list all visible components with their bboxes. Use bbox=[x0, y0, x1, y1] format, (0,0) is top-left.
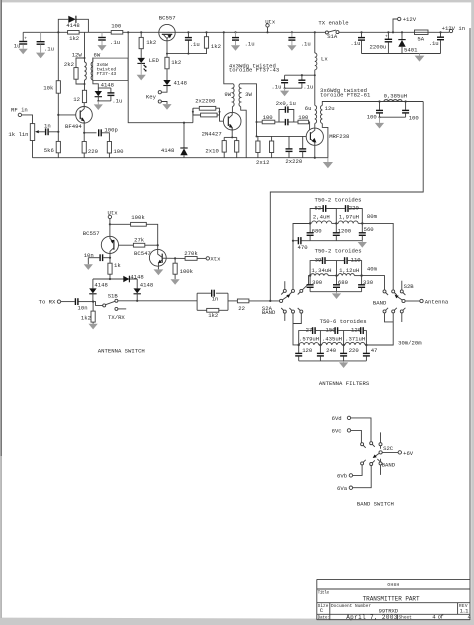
wire + terminal +6V bbox=[382, 450, 414, 457]
svg-text:TRANSMITTER PART: TRANSMITTER PART bbox=[363, 596, 420, 603]
transformer T2 primary 9W bbox=[224, 32, 234, 106]
transistor BC547 bbox=[134, 249, 166, 269]
wire: rail fuse to terminal bbox=[428, 30, 450, 33]
svg-text:2200u: 2200u bbox=[370, 44, 387, 51]
capacitor 100 (pi right) bbox=[402, 100, 419, 121]
ground (key) bbox=[162, 104, 171, 110]
bottom grey skew band bbox=[0, 618, 474, 625]
svg-text:100: 100 bbox=[298, 114, 309, 121]
capacitor 10n (RX) bbox=[75, 298, 93, 311]
wire: feedback row y=122 bbox=[257, 121, 263, 123]
svg-text:OH8H: OH8H bbox=[387, 583, 399, 588]
wire: base row y=136.4 bbox=[257, 135, 307, 137]
svg-text:ANTENNA FILTERS: ANTENNA FILTERS bbox=[319, 380, 370, 387]
svg-text:47: 47 bbox=[371, 347, 378, 354]
capacitor 2x0,1u (pair) bbox=[276, 100, 298, 125]
node bbox=[309, 274, 311, 276]
node bbox=[365, 344, 367, 346]
wire: 40m output to S2B bbox=[362, 276, 385, 290]
svg-text:100: 100 bbox=[263, 114, 274, 121]
svg-text:2x10: 2x10 bbox=[205, 148, 219, 155]
svg-text:100k: 100k bbox=[131, 214, 145, 221]
transformer T3 secondary 12u bbox=[320, 102, 423, 158]
svg-text:BC557: BC557 bbox=[83, 230, 100, 237]
note box: 3x6W twisted FT37-43 bbox=[93, 58, 128, 80]
node bbox=[342, 344, 344, 346]
capacitor 470 (matching) bbox=[292, 237, 310, 251]
svg-text:S1B: S1B bbox=[108, 292, 119, 299]
capacitor 120 (series) bbox=[344, 326, 367, 345]
svg-text:1,97uH: 1,97uH bbox=[339, 214, 359, 221]
terminal Key (pin 2) bbox=[158, 100, 161, 103]
capacitor .1u (mid a) bbox=[271, 75, 288, 90]
wire: diode to Key terminal bbox=[162, 86, 168, 93]
svg-text:.579uH: .579uH bbox=[299, 336, 319, 343]
svg-text:6W: 6W bbox=[94, 52, 101, 59]
ground (mid pair) bbox=[280, 88, 289, 96]
svg-text:Key: Key bbox=[146, 94, 157, 101]
svg-text:470: 470 bbox=[298, 244, 309, 251]
svg-text:6Vb: 6Vb bbox=[337, 473, 347, 480]
label BAND + leader bbox=[377, 459, 395, 469]
node: 27k junction bbox=[157, 244, 159, 246]
ground (100k) bbox=[171, 274, 180, 285]
svg-text:1k2: 1k2 bbox=[69, 35, 79, 42]
capacitor 1n (combo) bbox=[212, 290, 219, 303]
inductor .435uH bbox=[322, 336, 342, 345]
svg-text:1k2: 1k2 bbox=[81, 315, 91, 322]
wire: TX line to combo bbox=[118, 300, 197, 302]
node bbox=[335, 222, 337, 224]
inductor 1,12uH bbox=[338, 267, 359, 276]
wire: 100k to BC547 base column bbox=[146, 224, 157, 249]
S2B bottom contacts bbox=[383, 308, 405, 313]
diode 4148 (top left, series with rail) bbox=[66, 16, 79, 29]
ground bbox=[231, 41, 240, 51]
svg-text:5A: 5A bbox=[417, 35, 424, 42]
svg-text:S2C: S2C bbox=[383, 445, 394, 452]
resistor 12 (b) bbox=[256, 136, 274, 165]
terminal 6Va bbox=[337, 466, 371, 492]
wire: drive column x=128.2 down to driver bbox=[128, 32, 193, 122]
resistor 2200 (a) bbox=[193, 98, 220, 115]
transistor BC557 (keyer) bbox=[159, 14, 176, 40]
resistor 10k bbox=[43, 81, 60, 94]
resistor 270k bbox=[184, 250, 198, 260]
capacitor 1n (RF coupling) bbox=[44, 122, 58, 135]
svg-text:TX enable: TX enable bbox=[318, 20, 348, 27]
capacitor 82 (parallel L1) bbox=[310, 204, 336, 223]
diode 4148 (up, across emitter) bbox=[161, 147, 188, 158]
transformer T1 secondary 6W winding bbox=[91, 52, 101, 88]
wire: emitter return to 1k2 pullup bbox=[167, 48, 207, 53]
transistor BC557 (switch) bbox=[83, 230, 119, 254]
svg-text:2x2200: 2x2200 bbox=[195, 98, 216, 105]
wire: emitter split to 2x10 bbox=[231, 128, 233, 137]
svg-text:1k2: 1k2 bbox=[146, 39, 156, 46]
node: MRF emitter/rail bbox=[314, 157, 316, 159]
wire: 100 to rail bbox=[108, 153, 110, 158]
wire: pi caps bottom bus bbox=[380, 116, 406, 118]
svg-text:.435uH: .435uH bbox=[322, 336, 342, 343]
right frame line bbox=[469, 28, 471, 620]
svg-text:6Vd: 6Vd bbox=[332, 415, 342, 422]
switch S1B bbox=[93, 292, 126, 321]
resistor 100 (series in rail) bbox=[111, 23, 123, 34]
terminal RF in bbox=[11, 107, 28, 117]
wire: loop to base bbox=[220, 112, 224, 122]
node bbox=[335, 274, 337, 276]
node bbox=[166, 53, 168, 55]
node bbox=[298, 344, 300, 346]
potentiometer 1k lin bbox=[8, 124, 45, 141]
wire: .1u pair bottom bbox=[285, 87, 302, 89]
svg-text:To RX: To RX bbox=[39, 299, 56, 306]
diode 4148 (series, horizontal) bbox=[123, 274, 143, 283]
node bbox=[361, 222, 363, 224]
svg-text:T50-6 toroides: T50-6 toroides bbox=[320, 318, 367, 325]
capacitor .1u (12V in) bbox=[429, 31, 444, 53]
switch S2A common + rotor bbox=[262, 294, 290, 316]
capacitor 27 bbox=[299, 326, 321, 345]
svg-text:Utx: Utx bbox=[108, 209, 119, 216]
svg-text:4148: 4148 bbox=[94, 282, 107, 289]
node: 2k2 bottom tap bbox=[84, 83, 86, 85]
svg-text:BAND: BAND bbox=[262, 309, 276, 316]
svg-text:toroide FT37-43: toroide FT37-43 bbox=[229, 66, 279, 73]
inductor 1,34uH bbox=[311, 267, 332, 276]
inductor Lx bbox=[315, 32, 329, 75]
wire: combo to 22 bbox=[228, 300, 237, 302]
resistor 1k2 (combo) bbox=[207, 308, 219, 319]
node bbox=[360, 274, 362, 276]
wire + terminal Antenna bbox=[405, 299, 449, 306]
svg-text:4148: 4148 bbox=[174, 80, 187, 87]
svg-text:4148: 4148 bbox=[140, 282, 153, 289]
capacitor .1u (osc) bbox=[107, 88, 122, 105]
svg-text:390: 390 bbox=[312, 279, 323, 286]
svg-text:.1u: .1u bbox=[110, 39, 120, 46]
svg-text:680: 680 bbox=[312, 227, 323, 234]
wire: 30m output to S2B bbox=[366, 313, 393, 345]
resistor 1k2 (key chain) bbox=[165, 57, 181, 69]
svg-text:Date:: Date: bbox=[318, 616, 330, 621]
ground (PA rail) bbox=[327, 158, 329, 162]
ground (LED) bbox=[137, 63, 146, 80]
svg-text:+6V: +6V bbox=[403, 450, 414, 457]
node bbox=[309, 222, 311, 224]
resistor 100k (collector load) bbox=[173, 258, 194, 275]
svg-text:+12V in: +12V in bbox=[442, 25, 466, 32]
svg-text:220: 220 bbox=[88, 148, 99, 155]
svg-text:.1u: .1u bbox=[112, 98, 122, 105]
svg-text:.1u: .1u bbox=[350, 40, 360, 47]
svg-text:2k2: 2k2 bbox=[64, 61, 74, 68]
svg-text:330: 330 bbox=[363, 279, 374, 286]
wire: S2A to 80m filter input bbox=[293, 224, 310, 290]
capacitor 680 (shunt) bbox=[307, 223, 323, 240]
resistor 100 (fb left) bbox=[262, 114, 275, 124]
svg-text:toroide FT82-61: toroide FT82-61 bbox=[320, 92, 371, 99]
diode 4148 (key) bbox=[163, 80, 187, 87]
S2B top contacts bbox=[383, 290, 405, 295]
wire bbox=[110, 223, 131, 225]
svg-text:.1u: .1u bbox=[301, 40, 311, 47]
capacitor .1u (after S1A) bbox=[350, 31, 365, 53]
wire: TX feed loop (right, down, left, down to S2A) bbox=[270, 102, 423, 301]
wire bbox=[166, 69, 168, 80]
fuse 5A bbox=[415, 30, 429, 42]
capacitor 330 (shunt) bbox=[358, 276, 374, 292]
ground (power) bbox=[415, 54, 425, 62]
resistor 10 (a) bbox=[222, 141, 226, 153]
wire: key pin2 to ground bbox=[161, 102, 167, 105]
resistor 10 (b) bbox=[235, 141, 239, 153]
svg-text:6u: 6u bbox=[305, 105, 312, 112]
svg-text:22: 22 bbox=[238, 305, 245, 312]
svg-text:1,12uH: 1,12uH bbox=[339, 267, 359, 274]
svg-text:2x12: 2x12 bbox=[256, 159, 269, 166]
switch S2B common + rotor bbox=[373, 283, 414, 307]
svg-text:.1u: .1u bbox=[303, 83, 313, 90]
capacitor 39 bbox=[310, 257, 336, 276]
svg-text:T50-2 toroides: T50-2 toroides bbox=[315, 197, 362, 204]
capacitor 100 (pi left) bbox=[367, 100, 383, 120]
svg-text:220: 220 bbox=[349, 204, 360, 211]
wire: +12V rail top, y=32.3 bbox=[23, 31, 159, 33]
node bbox=[97, 100, 99, 102]
wire: BF494 base wire bbox=[58, 114, 76, 116]
svg-text:100p: 100p bbox=[104, 126, 117, 133]
wire: pair bottom bbox=[98, 100, 111, 102]
resistor 2200 (b) bbox=[193, 108, 220, 117]
wire: 10k column x=58.3 bbox=[57, 32, 59, 80]
svg-text:Utx: Utx bbox=[265, 18, 276, 25]
resistor 27k bbox=[133, 237, 157, 248]
svg-text:RF in: RF in bbox=[11, 107, 28, 114]
ground (.1u x=102) bbox=[97, 40, 106, 50]
wire: 220 to rail bbox=[83, 153, 85, 158]
resistor 100 (BF494) bbox=[107, 142, 124, 155]
wire: 22 to S2A common bbox=[249, 300, 280, 302]
node: 2k2 top tap bbox=[84, 57, 86, 59]
svg-text:Sheet: Sheet bbox=[399, 616, 413, 621]
capacitor 680 (shunt 40m) bbox=[333, 276, 349, 292]
inductor 2,4uH bbox=[312, 214, 332, 224]
diode 4148 (right shunt) bbox=[134, 279, 154, 301]
node: emitter split bbox=[83, 132, 85, 134]
svg-text:110: 110 bbox=[351, 257, 362, 264]
terminal +12V in bbox=[442, 25, 466, 33]
capacitor 110 bbox=[337, 257, 362, 276]
S2C upper contacts bbox=[361, 442, 382, 449]
ground (1u) bbox=[19, 44, 28, 54]
wire: down to 4148 bbox=[183, 123, 185, 148]
wire: S2A to 40m filter input bbox=[302, 276, 310, 290]
S2A bottom contacts bbox=[281, 308, 303, 313]
wire: BC557 base to 27k bbox=[119, 244, 134, 246]
svg-text:.371uH: .371uH bbox=[345, 336, 365, 343]
svg-text:10n: 10n bbox=[78, 305, 88, 312]
wire: 80m output to S2B bbox=[362, 223, 393, 290]
wire: BC557 collector/emitter down bbox=[166, 39, 168, 58]
wire: S2A bottom stub (unused) bbox=[284, 313, 286, 321]
ground (BC547 emitter) bbox=[154, 269, 164, 275]
svg-text:Document Number: Document Number bbox=[331, 604, 371, 609]
svg-text:100: 100 bbox=[409, 114, 420, 121]
ground bbox=[287, 41, 296, 51]
svg-text:MRF238: MRF238 bbox=[329, 133, 349, 140]
node: 4148 column bbox=[183, 122, 185, 124]
ground (1k2 RX) bbox=[89, 322, 98, 329]
svg-text:2N4427: 2N4427 bbox=[202, 131, 222, 138]
svg-text:80m: 80m bbox=[367, 213, 378, 220]
svg-text:April 7, 2003: April 7, 2003 bbox=[346, 614, 398, 621]
svg-text:BAND: BAND bbox=[373, 299, 387, 306]
svg-text:100: 100 bbox=[113, 148, 124, 155]
svg-text:1k2: 1k2 bbox=[211, 43, 221, 50]
svg-text:1k2: 1k2 bbox=[171, 59, 181, 66]
wire: ground rail y=157.7 bbox=[33, 157, 328, 159]
svg-text:1,34uH: 1,34uH bbox=[311, 267, 331, 274]
wire: RF in to pot bbox=[22, 115, 33, 124]
svg-text:4148: 4148 bbox=[161, 147, 174, 154]
svg-text:4 of: 4 of bbox=[432, 614, 443, 621]
svg-text:1k2: 1k2 bbox=[208, 312, 218, 319]
wire: 40m shunt bus bbox=[310, 291, 362, 293]
svg-text:82: 82 bbox=[314, 204, 321, 211]
wire: power ground bus bbox=[362, 53, 441, 55]
left scan dark bar bbox=[1, 0, 2, 456]
resistor 1k2 (series in rail) bbox=[68, 31, 80, 43]
svg-text:3W: 3W bbox=[245, 91, 252, 98]
wire: S2B top-right stub bbox=[401, 281, 403, 290]
wire: pot bottom to rail bbox=[32, 141, 34, 158]
svg-text:.1u: .1u bbox=[271, 83, 281, 90]
svg-text:+: + bbox=[24, 37, 27, 42]
resistor 100k (bias) bbox=[131, 214, 147, 226]
wire: BC547 collector row bbox=[162, 257, 185, 259]
svg-text:39: 39 bbox=[315, 257, 322, 264]
ground (40m) bbox=[332, 292, 341, 299]
wire: 2x10 to rail bbox=[223, 152, 225, 158]
svg-text:Xtx: Xtx bbox=[210, 256, 221, 263]
svg-text:4148: 4148 bbox=[101, 82, 114, 89]
capacitor 47 (shunt) bbox=[363, 345, 378, 361]
diode 4148 (osc clamp) bbox=[95, 82, 114, 101]
svg-text:Lx: Lx bbox=[321, 55, 328, 62]
svg-text:6Va: 6Va bbox=[337, 485, 348, 492]
svg-text:S2B: S2B bbox=[404, 283, 415, 290]
node bbox=[319, 344, 321, 346]
inductor .579uH bbox=[299, 336, 319, 345]
svg-text:BAND SWITCH: BAND SWITCH bbox=[357, 501, 394, 508]
svg-text:.1u: .1u bbox=[44, 45, 54, 52]
wire: 30m shunt bus bbox=[299, 360, 367, 362]
capacitor 390 (shunt) bbox=[307, 276, 323, 292]
inductor .371uH bbox=[345, 336, 365, 345]
svg-text:120: 120 bbox=[302, 347, 313, 354]
svg-text:2x0,1u: 2x0,1u bbox=[276, 100, 296, 107]
wire: shunt bottom bus bbox=[310, 240, 362, 242]
wire: S2A to 30m/20m filter input bbox=[293, 313, 299, 345]
capacitor 220 (a) bbox=[286, 136, 293, 157]
wire: 6u top up through Lx to rail bbox=[314, 75, 316, 105]
capacitor 100p bbox=[99, 126, 118, 136]
wire: BF494 emitter down bbox=[83, 122, 85, 142]
wire: 4148/.1u pair top bbox=[98, 87, 111, 89]
svg-text:5401: 5401 bbox=[404, 46, 418, 53]
svg-text:100: 100 bbox=[111, 23, 122, 30]
svg-text:12u: 12u bbox=[325, 105, 335, 112]
ground (pi filter) bbox=[375, 117, 384, 128]
ground (80m) bbox=[358, 241, 367, 248]
ground (10n) bbox=[84, 258, 93, 270]
capacitor .1u (rail x=235.5) bbox=[232, 31, 255, 47]
capacitor 220 (b) bbox=[285, 136, 306, 165]
terminal 6Vd bbox=[332, 415, 371, 442]
terminal Utx (top) bbox=[265, 18, 276, 33]
svg-text:1k: 1k bbox=[114, 262, 121, 269]
svg-text:220: 220 bbox=[349, 347, 360, 354]
wire: diode bypass loop over 1k2 bbox=[58, 19, 68, 32]
resistor 1k2 (keyer pull) bbox=[204, 31, 221, 50]
inductor 1,97uH bbox=[338, 214, 359, 224]
wire: BC557 collector down bbox=[109, 254, 111, 264]
svg-text:120: 120 bbox=[351, 326, 362, 333]
S2C lower contacts bbox=[361, 459, 382, 466]
svg-text:T50-2 toroides: T50-2 toroides bbox=[315, 248, 362, 255]
wire: rail after S1A to +12V-in terminal bbox=[339, 31, 415, 33]
ground (osc pair) bbox=[94, 101, 103, 110]
node bbox=[174, 257, 176, 259]
transformer T3 primary 6u bbox=[305, 105, 317, 124]
wire: 1k to diode rail bbox=[109, 274, 111, 279]
svg-text:+12V: +12V bbox=[403, 16, 417, 23]
wire + terminal Xtx bbox=[197, 256, 221, 263]
svg-text:270k: 270k bbox=[184, 250, 198, 257]
capacitor 150 bbox=[320, 326, 343, 345]
capacitor 120 (shunt1) bbox=[295, 345, 313, 361]
capacitor 220 (parallel L2) bbox=[336, 204, 362, 223]
switch S2C common + rotor bbox=[373, 445, 394, 458]
svg-text:12: 12 bbox=[73, 96, 80, 103]
node bbox=[192, 111, 194, 113]
svg-text:150: 150 bbox=[326, 326, 337, 333]
svg-text:4148: 4148 bbox=[66, 22, 79, 29]
capacitor .1u (rail x=291.9) bbox=[288, 31, 310, 47]
wire: 100p to 100 resistor bbox=[102, 133, 110, 142]
svg-text:100: 100 bbox=[367, 114, 378, 121]
resistor 22 bbox=[237, 299, 249, 312]
wire: 2k2 parallel loop bbox=[76, 58, 85, 68]
capacitor 1u (polarized, left) bbox=[14, 32, 27, 49]
transformer T1 primary 12W winding bbox=[72, 32, 87, 90]
capacitor 2200u (polarized) bbox=[370, 31, 393, 53]
wire: collector up to T2 bbox=[231, 107, 233, 113]
svg-text:TX/RX: TX/RX bbox=[108, 314, 125, 321]
node: 10n tap bbox=[109, 257, 111, 259]
svg-text:BF494: BF494 bbox=[65, 123, 82, 130]
capacitor .1u (left pair) bbox=[37, 32, 54, 52]
ground (.1u left) bbox=[36, 45, 45, 59]
terminal Utx (switch section) bbox=[108, 209, 119, 236]
capacitor .1u (x=102 on rail) bbox=[98, 32, 120, 46]
capacitor 1200 (shunt) bbox=[333, 223, 352, 240]
wire: To RX to 10n bbox=[61, 301, 75, 303]
svg-text:Title: Title bbox=[318, 590, 330, 595]
wire: emitter to 100p bbox=[84, 132, 96, 134]
